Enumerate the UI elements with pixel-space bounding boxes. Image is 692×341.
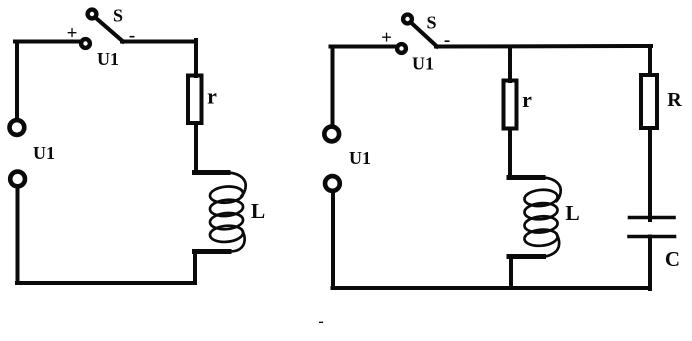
battery U1 upper terminal (right circuit) [324, 127, 339, 142]
wire: right-circuit right vertical into R [648, 46, 652, 75]
svg-text:-: - [318, 313, 323, 330]
svg-text:+: + [67, 23, 78, 44]
switch S upper terminal [88, 10, 97, 19]
wire: L to bottom rail [193, 252, 197, 284]
wire: r to inductor L (right circuit) [508, 129, 512, 178]
switch S left terminal [81, 39, 90, 48]
wire: left-circuit bottom rail [17, 281, 195, 285]
wire: R to capacitor C [648, 128, 652, 220]
switch S blade [97, 19, 124, 42]
svg-text:-: - [129, 25, 135, 46]
switch S upper terminal (right circuit) [403, 15, 412, 24]
wire: right-circuit left vertical (top half) [331, 47, 335, 126]
svg-text:r: r [207, 84, 217, 109]
svg-text:+: + [381, 28, 392, 49]
wire: C to bottom rail [648, 237, 652, 290]
svg-text:L: L [565, 201, 579, 225]
resistor R (right circuit) [641, 75, 657, 128]
wire: left-circuit left vertical (bottom half) [16, 189, 20, 284]
switch S blade (right circuit) [412, 24, 437, 47]
battery U1 upper terminal (left circuit) [10, 120, 25, 135]
battery U1 lower terminal (left circuit) [10, 172, 25, 187]
resistor r (left circuit) [188, 76, 202, 124]
svg-text:C: C [665, 247, 680, 271]
wire: left-circuit left vertical (top half) [15, 42, 19, 120]
wire: r to inductor L [194, 123, 198, 172]
wire: right-circuit bottom rail [333, 286, 651, 290]
capacitor C upper plate [630, 216, 675, 220]
wire: L to bottom rail (right circuit) [509, 257, 513, 289]
wire: left-circuit top rail, right segment [122, 40, 196, 44]
svg-text:U1: U1 [97, 49, 119, 69]
wire: node junction to resistor r (right circuit) [508, 47, 512, 82]
wire: right-circuit left vertical (bottom half) [331, 193, 335, 289]
svg-text:S: S [113, 6, 123, 26]
svg-text:U1: U1 [349, 148, 371, 168]
inductor L (left circuit) [195, 173, 246, 252]
svg-text:R: R [667, 89, 682, 111]
svg-text:r: r [522, 87, 532, 112]
wire: left-circuit right vertical into r [194, 40, 198, 76]
wire: right-circuit top rail, left segment to switch [331, 45, 396, 49]
capacitor C lower plate [629, 235, 675, 239]
battery U1 lower terminal (right circuit) [325, 176, 340, 191]
wire: left-circuit top rail, left segment to switch [15, 40, 79, 44]
switch S left terminal (right circuit) [397, 44, 406, 53]
svg-text:-: - [444, 30, 450, 51]
inductor L (right circuit) [509, 178, 561, 257]
svg-text:L: L [251, 199, 265, 223]
wire: right-circuit top rail, middle segment [436, 44, 651, 49]
svg-text:S: S [426, 13, 436, 33]
svg-text:U1: U1 [33, 143, 55, 163]
svg-text:U1: U1 [412, 54, 434, 74]
resistor r (right circuit) [504, 81, 517, 129]
